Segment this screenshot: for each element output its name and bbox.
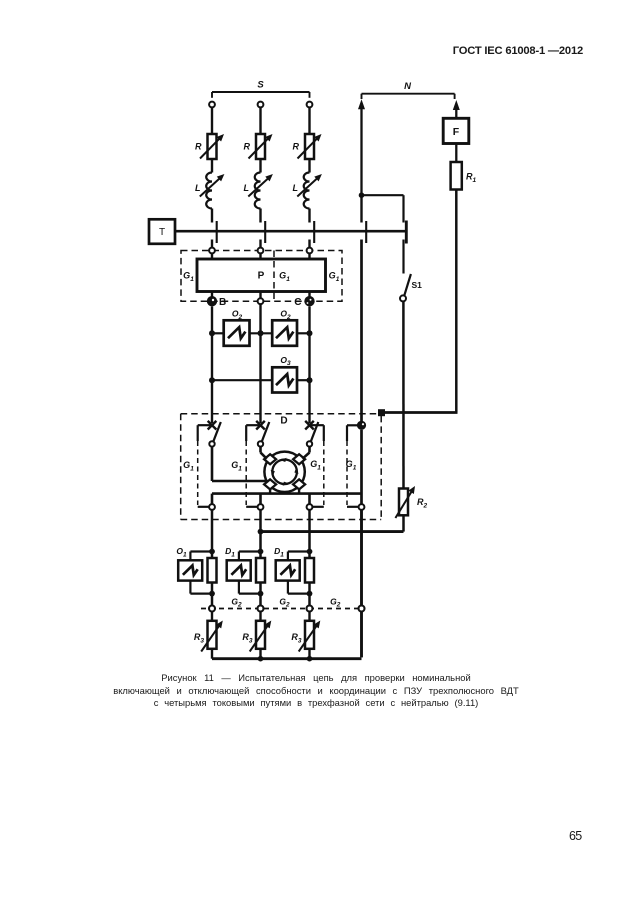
adjustable inductor L phase 1 <box>206 173 212 209</box>
dashed divider G1 <box>273 251 275 302</box>
device D1 box <box>227 560 251 580</box>
surge device O2 second <box>272 320 297 346</box>
svg-text:D: D <box>280 415 287 426</box>
wire rotary common return <box>212 492 362 495</box>
bus end bar <box>405 221 408 244</box>
terminal on enclosure <box>259 240 261 248</box>
node S supply bracket <box>212 91 310 93</box>
device under test D dashed box <box>181 414 382 520</box>
parallel jumper wires <box>287 552 289 561</box>
svg-text:C: C <box>294 297 301 308</box>
adjustable resistor R phase 2 <box>256 134 265 159</box>
wire pole1 to rotary <box>211 446 214 481</box>
neutral pole sub-box G1 <box>347 424 362 426</box>
svg-text:G1: G1 <box>310 459 321 471</box>
measuring node C <box>304 296 314 306</box>
svg-text:R1: R1 <box>466 172 477 184</box>
svg-text:F: F <box>453 126 460 138</box>
supply bus wire <box>175 230 407 233</box>
junction nodes bottom <box>258 656 264 662</box>
wire phase 2 <box>259 159 261 173</box>
series resistor in combo <box>305 558 314 583</box>
wire column 1 <box>211 306 213 423</box>
adjustable resistor R phase 3 <box>305 134 314 159</box>
wire column to load section <box>211 510 214 558</box>
junction nodes O2 row <box>209 330 215 336</box>
device P box <box>197 259 326 292</box>
parallel jumper wires <box>238 552 240 561</box>
wire phase 1 to bus <box>211 209 213 223</box>
device D1 box <box>276 560 300 580</box>
terminal on enclosure <box>211 240 213 248</box>
device O1 box <box>178 560 202 580</box>
wire phase 2 from terminal <box>259 107 261 134</box>
svg-text:L: L <box>195 183 201 193</box>
wire neutral to bus <box>360 195 362 222</box>
supply terminal <box>307 102 313 108</box>
surge device O3 <box>272 367 297 392</box>
wire column to load section <box>308 510 311 558</box>
wire O3 row <box>212 379 272 381</box>
wire column 2 <box>259 304 261 423</box>
terminal G2 <box>258 606 264 612</box>
wire column 3 <box>308 306 310 423</box>
wire <box>455 144 457 163</box>
rotary selector switch <box>264 452 304 492</box>
wire <box>259 611 261 620</box>
terminal on enclosure <box>308 240 310 248</box>
svg-text:S: S <box>257 80 264 91</box>
pole 2 bottom terminal <box>258 504 264 510</box>
wire pole3 to rotary <box>308 446 311 452</box>
switch arm pole 2 <box>262 422 270 442</box>
svg-text:G2: G2 <box>231 596 242 608</box>
svg-text:R3: R3 <box>242 632 253 644</box>
svg-text:L: L <box>244 183 250 193</box>
svg-text:T: T <box>159 227 165 238</box>
junction node <box>258 529 264 535</box>
pole 3 bottom terminal <box>307 504 313 510</box>
wire <box>211 649 213 659</box>
junction nodes <box>209 549 215 555</box>
wire pole2 to rotary <box>259 446 262 452</box>
wire phase 2 to bus <box>259 209 261 223</box>
wire <box>211 611 213 620</box>
svg-text:R2: R2 <box>417 497 428 509</box>
mid terminal node <box>258 298 264 304</box>
adjustable resistor R phase 1 <box>208 134 217 159</box>
wire neutral below bus <box>360 240 363 422</box>
wire <box>259 649 261 659</box>
wire to frame terminal <box>384 411 457 414</box>
wire phase 3 from terminal <box>308 107 310 134</box>
wire phase 3 to bus <box>308 209 310 223</box>
neutral pole bottom terminal <box>359 504 365 510</box>
contact X pole 2 <box>256 421 265 430</box>
adjustable inductor L phase 3 <box>304 173 310 209</box>
test transformer T <box>149 219 175 244</box>
wire R2 return <box>402 515 405 531</box>
pole 3 sub-box G1 <box>310 424 324 426</box>
terminal G2 <box>359 606 365 612</box>
wire phase 1 <box>211 159 213 173</box>
wire <box>308 611 310 620</box>
supply terminal <box>209 102 215 108</box>
contact X pole 1 <box>208 421 217 430</box>
arrow on F branch <box>453 100 460 110</box>
svg-text:G1: G1 <box>329 271 340 283</box>
node N bracket <box>362 93 455 95</box>
terminal G2 <box>209 606 215 612</box>
surge device O2 first <box>224 320 250 346</box>
svg-text:B: B <box>219 297 226 308</box>
wire phase 1 from terminal <box>211 107 213 134</box>
adjustable resistor R3 <box>256 621 265 649</box>
svg-text:R3: R3 <box>194 632 205 644</box>
svg-text:R: R <box>293 142 300 152</box>
wire <box>308 649 310 659</box>
wire S1 to R2 <box>402 301 405 488</box>
wire <box>211 583 214 606</box>
measuring node B <box>207 296 217 306</box>
switch arm pole 1 <box>213 422 221 442</box>
pole 2 sub-box G1 <box>246 424 260 426</box>
svg-text:S1: S1 <box>412 280 423 290</box>
wire neutral through D <box>360 430 363 504</box>
supply terminal <box>258 102 264 108</box>
wire S1 branch below bus <box>402 240 404 274</box>
switch S1 <box>404 274 411 296</box>
svg-text:G2: G2 <box>279 596 290 608</box>
series resistor in combo <box>256 558 265 583</box>
bus terminal tick phase 2 <box>264 221 266 243</box>
series resistor in combo <box>208 558 217 583</box>
svg-text:L: L <box>293 183 299 193</box>
svg-text:R: R <box>195 142 202 152</box>
svg-text:G2: G2 <box>330 596 341 608</box>
pole 1 sub-box G1 <box>198 424 212 426</box>
enclosure dashed box around P <box>181 251 342 302</box>
junction nodes O3 row <box>209 377 215 383</box>
junction node <box>359 192 365 198</box>
svg-text:D1: D1 <box>225 546 235 558</box>
svg-text:R3: R3 <box>291 632 302 644</box>
svg-text:G1: G1 <box>231 460 242 472</box>
svg-text:P: P <box>258 271 265 282</box>
net G2 dashed line <box>201 608 362 610</box>
adjustable resistor R2 <box>399 489 408 516</box>
wire neutral to S1 branch <box>362 194 404 196</box>
terminal G2 <box>307 606 313 612</box>
svg-text:O1: O1 <box>176 546 187 558</box>
wire neutral column lower <box>360 510 363 606</box>
wire stubs below P <box>211 292 213 302</box>
wire <box>259 583 262 606</box>
switch arm pole 3 <box>311 422 319 442</box>
wire bottom return <box>212 657 362 660</box>
svg-text:O3: O3 <box>280 355 291 367</box>
wire phase 3 <box>308 159 310 173</box>
svg-text:R: R <box>244 142 251 152</box>
svg-text:G1: G1 <box>183 460 194 472</box>
bus terminal tick neutral <box>365 221 367 243</box>
wire O2 row <box>212 332 224 334</box>
wire column to load section <box>259 510 262 558</box>
adjustable resistor R3 <box>208 621 217 649</box>
wire <box>308 583 311 606</box>
svg-text:N: N <box>404 81 412 92</box>
junction nodes <box>258 549 264 555</box>
svg-text:G1: G1 <box>183 271 194 283</box>
bus terminal tick phase 3 <box>313 221 315 243</box>
contact X pole 3 <box>305 421 314 430</box>
frame terminal square node <box>378 409 385 416</box>
bus terminal tick phase 1 <box>216 221 218 243</box>
pole 1 bottom terminal <box>209 504 215 510</box>
residual current detector F <box>443 118 469 143</box>
neutral solid link node <box>357 421 366 430</box>
adjustable resistor R3 <box>305 621 314 649</box>
svg-text:D1: D1 <box>274 546 284 558</box>
parallel jumper wires <box>189 552 191 561</box>
adjustable inductor L phase 2 <box>255 173 261 209</box>
wire F branch down <box>455 190 458 413</box>
resistor R1 <box>451 162 462 190</box>
junction nodes <box>307 549 313 555</box>
arrow on neutral line <box>358 99 365 109</box>
